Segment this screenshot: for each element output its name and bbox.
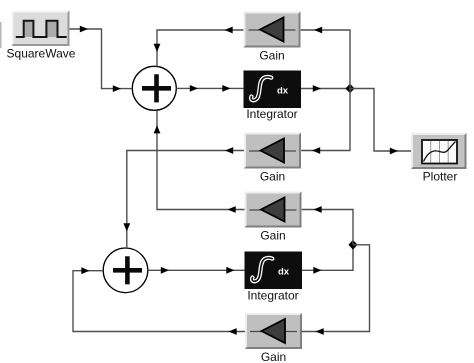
- svg-text:Plotter: Plotter: [423, 170, 458, 184]
- summing junction S1: [132, 66, 176, 110]
- summing junction S2: [103, 248, 148, 293]
- wire SquareWave to S1: [70, 26, 133, 92]
- wire G4 output to S2 left: [73, 267, 245, 335]
- wire G1 output to S1 top: [154, 27, 244, 67]
- wire I1 output to junction J1: [301, 85, 350, 92]
- svg-text:Gain: Gain: [259, 49, 284, 63]
- integrator I2 (bottom): [245, 252, 303, 290]
- svg-text:Gain: Gain: [260, 170, 285, 184]
- wire S2 output to I2: [148, 267, 245, 274]
- wire J1 to Plotter: [350, 89, 411, 155]
- wire S1 output to I1: [176, 85, 243, 92]
- gain G3: [245, 192, 302, 228]
- svg-text:Integrator: Integrator: [246, 107, 297, 121]
- junction J2: [348, 240, 357, 250]
- wire J1 down to G2 input: [301, 89, 350, 154]
- gain G1 (top): [244, 12, 301, 48]
- wire G3 output to S1 bottom: [154, 110, 245, 213]
- svg-text:SquareWave: SquareWave: [7, 47, 76, 61]
- block SquareWave: [12, 11, 70, 47]
- wire J2 to G4 input: [301, 245, 369, 335]
- svg-text:Gain: Gain: [261, 350, 286, 363]
- block Plotter: [411, 133, 467, 169]
- junction J1: [345, 84, 354, 94]
- wire J1 up to G1 input: [301, 27, 350, 89]
- svg-text:Gain: Gain: [260, 229, 285, 243]
- wire J2 up to G3 input: [302, 206, 353, 245]
- integrator I1 (top): [244, 71, 302, 109]
- gain G2: [244, 133, 301, 169]
- scan artifact left edge: [0, 22, 2, 48]
- wire I2 output to junction J2: [302, 245, 353, 274]
- gain G4 (bottom): [245, 313, 302, 349]
- wire G2 output to S2 top: [123, 147, 244, 248]
- svg-text:Integrator: Integrator: [247, 289, 298, 303]
